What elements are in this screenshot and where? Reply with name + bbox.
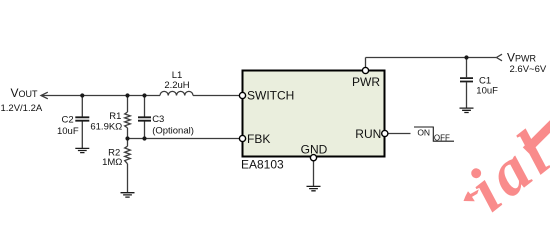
inductor L1 — [160, 91, 193, 95]
node VOUT arrow — [41, 92, 48, 99]
wire: PWR to VPWR — [366, 57, 497, 59]
capacitor C3 plates — [138, 117, 151, 120]
capacitor C1 leads — [466, 58, 468, 109]
pin RUN circle — [382, 130, 388, 136]
ground (R2) — [121, 193, 135, 197]
ground (C2) — [75, 148, 89, 152]
pin PWR circle — [362, 67, 368, 73]
resistor R1 zigzag — [125, 112, 131, 128]
resistor R1 leads — [127, 96, 129, 139]
svg-text:VPWR: VPWR — [507, 51, 537, 65]
junction C3/VOUT — [142, 93, 146, 97]
capacitor C1 plates — [460, 78, 473, 81]
wire: VOUT net to inductor — [41, 95, 160, 97]
watermark text ial (Confidential fragment) — [455, 116, 550, 226]
ground (C1) — [460, 108, 474, 112]
svg-text:61.9KΩ: 61.9KΩ — [90, 122, 122, 133]
watermark diagonal band at top-right corner — [526, 124, 550, 151]
wire: GND pin down — [313, 161, 315, 186]
watermark t-hook fragment — [464, 189, 479, 201]
wire: FBK net — [128, 138, 240, 140]
svg-text:C2: C2 — [62, 114, 74, 125]
capacitor C3 leads — [144, 96, 146, 139]
pin GND circle — [310, 155, 316, 161]
node VPWR arrow — [496, 54, 502, 61]
svg-text:1.2V/1.2A: 1.2V/1.2A — [1, 103, 43, 114]
wire: PWR pin up — [365, 58, 367, 68]
capacitor C2 leads — [81, 96, 83, 149]
svg-text:PWR: PWR — [352, 75, 380, 89]
junction C1/VPWR — [464, 55, 468, 59]
svg-text:EA8103: EA8103 — [241, 158, 284, 172]
svg-text:VOUT: VOUT — [10, 86, 38, 100]
IC U1 EA8103 body — [243, 71, 385, 157]
wire: inductor to SWITCH pin — [193, 95, 239, 97]
svg-text:FBK: FBK — [247, 132, 270, 146]
svg-text:ON: ON — [417, 127, 430, 137]
svg-text:SWITCH: SWITCH — [247, 88, 294, 102]
pin SWITCH circle — [239, 92, 245, 98]
svg-text:2.6V~6V: 2.6V~6V — [510, 64, 547, 75]
svg-text:R1: R1 — [109, 111, 121, 122]
svg-text:1MΩ: 1MΩ — [102, 157, 122, 168]
junction R1/R2/FBK — [125, 136, 129, 140]
ON/OFF switch symbol lines — [414, 127, 454, 141]
ground (IC GND) — [307, 186, 321, 190]
svg-text:2.2uH: 2.2uH — [164, 80, 189, 91]
junction C3/FBK — [142, 136, 146, 140]
svg-text:10uF: 10uF — [476, 86, 498, 97]
capacitor C2 plates — [75, 117, 89, 120]
resistor R2 leads — [127, 139, 129, 193]
svg-text:OFF: OFF — [434, 133, 450, 142]
pin FBK circle — [239, 135, 245, 141]
svg-text:RUN: RUN — [355, 127, 381, 141]
svg-text:GND: GND — [301, 142, 328, 156]
svg-text:(Optional): (Optional) — [152, 125, 194, 136]
junction R1/VOUT — [125, 93, 129, 97]
wire: RUN stub — [388, 133, 411, 135]
svg-text:C3: C3 — [152, 114, 164, 125]
junction C2/VOUT — [80, 93, 84, 97]
resistor R2 zigzag — [125, 146, 131, 164]
svg-text:ial: ial — [455, 116, 550, 226]
svg-text:10uF: 10uF — [57, 126, 79, 137]
